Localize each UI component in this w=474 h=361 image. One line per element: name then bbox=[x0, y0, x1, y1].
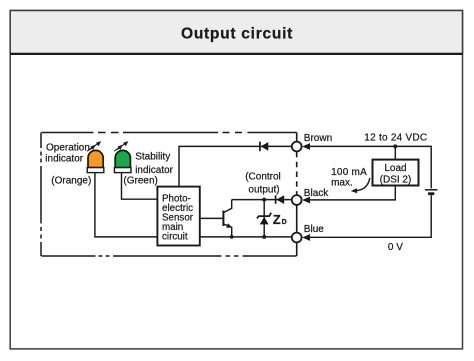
wire: +V rail from Brown to right bbox=[309, 146, 431, 188]
svg-text:circuit: circuit bbox=[162, 232, 188, 243]
load box (DSI 2) bbox=[373, 160, 419, 186]
svg-text:Operation: Operation bbox=[46, 143, 90, 154]
junction at zener top bbox=[262, 198, 266, 202]
green LED emission arrow 1 bbox=[117, 141, 128, 149]
orange LED emission arrow 1 bbox=[90, 141, 101, 149]
green LED emission arrow 2 bbox=[114, 145, 123, 151]
wire: battery minus down to 0V rail and left to Blue bbox=[309, 195, 431, 237]
sensor enclosure dashed left edge bbox=[40, 133, 42, 257]
svg-text:Blue: Blue bbox=[304, 224, 324, 235]
collector bbox=[224, 200, 232, 213]
emitter arrowhead bbox=[226, 223, 232, 227]
sensor main circuit box U1 bbox=[157, 187, 199, 246]
junction at zener bottom bbox=[262, 235, 266, 239]
base bar bbox=[222, 211, 224, 227]
wire: orange LED cathode down and right to main circuit bbox=[95, 173, 157, 237]
orange LED dome bbox=[88, 150, 103, 167]
wire: main circuit top up and right to diode D1 / Brown bbox=[179, 146, 292, 186]
LED indicator D-green: stability indicator bbox=[114, 141, 131, 173]
svg-text:0 V: 0 V bbox=[388, 242, 403, 253]
svg-text:Output circuit: Output circuit bbox=[181, 25, 293, 42]
arrowhead into Blue node bbox=[302, 234, 310, 241]
svg-text:max.: max. bbox=[331, 178, 353, 189]
sensor enclosure dashed top edge bbox=[42, 132, 297, 134]
node Black terminal bbox=[292, 195, 302, 205]
svg-text:12 to 24 VDC: 12 to 24 VDC bbox=[364, 133, 427, 144]
diode D1 (on Brown line) bbox=[260, 142, 268, 152]
green LED base band bbox=[114, 168, 131, 173]
svg-text:Load: Load bbox=[384, 163, 406, 174]
title bar bbox=[10, 11, 462, 54]
junction dot on +V rail bbox=[393, 144, 397, 148]
LED indicator D-orange: operation indicator bbox=[87, 141, 104, 173]
svg-text:indicator: indicator bbox=[135, 165, 173, 176]
svg-text:(Green): (Green) bbox=[123, 176, 157, 187]
svg-text:Black: Black bbox=[304, 188, 329, 199]
diode D2 (control output, at Black) bbox=[276, 195, 285, 204]
svg-text:(DSI 2): (DSI 2) bbox=[380, 174, 412, 185]
transistor Q1 (NPN) bbox=[223, 200, 232, 237]
zener cathode bar with ticks bbox=[257, 213, 271, 219]
wire: Black to Blue bbox=[296, 205, 298, 232]
svg-text:Z: Z bbox=[273, 212, 281, 227]
sensor enclosure dashed bottom edge bbox=[42, 255, 297, 257]
svg-text:Brown: Brown bbox=[304, 133, 332, 144]
svg-text:100 mA: 100 mA bbox=[331, 167, 367, 178]
junction dot at emitter bbox=[230, 235, 234, 239]
orange LED emission arrow 2 bbox=[87, 145, 96, 151]
wire: from +V junction down to load bbox=[394, 146, 396, 159]
battery BT1 bbox=[425, 190, 438, 194]
curved arrow for load current bbox=[351, 178, 370, 193]
svg-text:output): output) bbox=[248, 185, 279, 196]
emitter bbox=[224, 224, 232, 237]
svg-text:D: D bbox=[282, 219, 287, 226]
wire: Blue down to enclosure bottom corner bbox=[296, 243, 298, 256]
wire: green LED cathode down and right to main circuit bbox=[122, 173, 158, 200]
svg-text:(Orange): (Orange) bbox=[51, 175, 91, 186]
svg-text:Stability: Stability bbox=[135, 152, 170, 163]
wire: control output line (collector to Black) bbox=[232, 199, 292, 201]
zener vertical wire bbox=[263, 200, 265, 237]
green LED dome bbox=[115, 150, 130, 167]
svg-text:(Control: (Control bbox=[245, 171, 281, 182]
arrowhead into Black node bbox=[302, 197, 310, 204]
wire: dashed segment Brown to Black bbox=[296, 152, 298, 195]
wire: emitter line to Blue node bbox=[200, 236, 292, 238]
wire: load bottom down and left to Black node bbox=[309, 186, 395, 200]
node Blue terminal bbox=[292, 233, 302, 243]
svg-text:indicator: indicator bbox=[45, 153, 83, 164]
orange LED base band bbox=[87, 168, 104, 173]
wire: base from main circuit to transistor bbox=[200, 217, 223, 219]
node Brown terminal bbox=[292, 142, 302, 152]
zener triangle bbox=[260, 217, 269, 225]
wire: enclosure corner down to Brown node bbox=[296, 133, 298, 142]
zener diode ZD bbox=[257, 198, 271, 239]
arrowhead into Brown node bbox=[302, 143, 310, 150]
